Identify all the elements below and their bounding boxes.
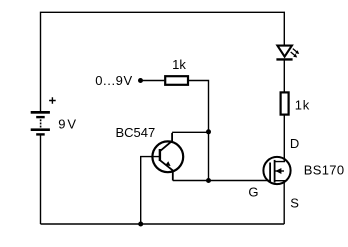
wire: LED cathode to resistor R2 [283, 60, 285, 92]
svg-text:G: G [248, 185, 258, 200]
svg-text:D: D [290, 136, 299, 151]
resistor R1 1k [165, 76, 188, 85]
battery dotted separator [40, 119, 42, 127]
node: collector junction dot [206, 129, 211, 134]
battery plus sign [49, 97, 56, 103]
input terminal dot [138, 78, 143, 83]
svg-text:9V: 9V [58, 117, 78, 132]
LED D1 [276, 46, 292, 60]
svg-text:0...9V: 0...9V [95, 73, 133, 88]
wire: emitter node to MOSFET gate [173, 180, 270, 182]
svg-text:1k: 1k [172, 57, 186, 72]
wire: battery negative down [40, 135, 42, 224]
svg-text:BC547: BC547 [116, 125, 156, 140]
wire: base of Q1 left and down to bottom rail [141, 157, 160, 224]
wire: collector horizontal to node [172, 131, 208, 133]
node: emitter/gate junction dot [206, 178, 211, 183]
wire: bottom rail [41, 223, 285, 225]
transistor Q1 BC547 [152, 133, 183, 181]
LED light arrow 2 [291, 52, 298, 58]
wire: resistor R1 right to vertical node column [189, 81, 209, 181]
svg-text:BS170: BS170 [304, 163, 345, 178]
wire: resistor R2 to MOSFET drain [275, 116, 285, 162]
wire: MOSFET source down to bottom rail [275, 181, 285, 224]
resistor R2 1k [281, 92, 289, 114]
LED light arrow 1 [293, 49, 299, 54]
wire: input terminal to resistor R1 [141, 80, 165, 82]
svg-text:S: S [290, 196, 299, 211]
node: base/ground junction dot [138, 222, 143, 227]
battery B1 9V [31, 111, 50, 136]
svg-text:1k: 1k [295, 98, 310, 113]
wire: battery positive up, top rail, down to LED anode [41, 12, 285, 111]
transistor Q2 BS170 MOSFET [263, 157, 290, 184]
